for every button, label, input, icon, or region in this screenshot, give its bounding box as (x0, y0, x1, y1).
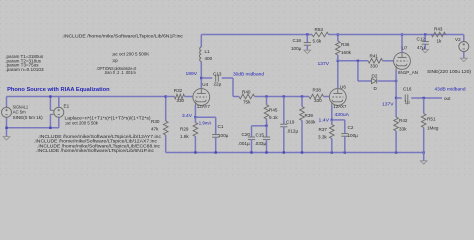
svg-text:C16: C16 (403, 87, 412, 92)
svg-text:R36: R36 (341, 42, 350, 47)
svg-text:C12: C12 (417, 36, 426, 41)
svg-text:100µ: 100µ (291, 46, 302, 51)
svg-text:D2: D2 (372, 74, 378, 79)
svg-text:R43: R43 (434, 27, 443, 32)
svg-text:R42: R42 (399, 118, 408, 123)
svg-text:.001µ: .001µ (238, 141, 250, 146)
svg-text:12AX7: 12AX7 (333, 104, 347, 109)
svg-text:E1: E1 (64, 104, 70, 109)
svg-text:R38: R38 (313, 88, 322, 93)
svg-text:1Meg: 1Meg (427, 126, 439, 131)
svg-text:47µ: 47µ (417, 45, 425, 50)
svg-text:R51: R51 (427, 117, 436, 122)
svg-text:R40: R40 (242, 90, 251, 95)
svg-text:;op: ;op (112, 58, 118, 63)
svg-text:100µ: 100µ (348, 133, 359, 138)
svg-text:.033µ: .033µ (255, 141, 267, 146)
svg-text:137V: 137V (318, 61, 330, 66)
svg-text:6N1P_AN: 6N1P_AN (398, 70, 418, 75)
svg-text:C1: C1 (218, 124, 224, 129)
svg-text:L1: L1 (205, 49, 211, 54)
svg-text:R53: R53 (315, 27, 324, 32)
svg-text:33k: 33k (399, 127, 407, 132)
svg-text:SINE(0 5m 1k): SINE(0 5m 1k) (13, 115, 43, 120)
svg-text:C18: C18 (293, 38, 302, 43)
svg-text:U7: U7 (402, 46, 408, 51)
svg-text:R32: R32 (174, 88, 183, 93)
svg-text:Laplace=n*(1+T1*s)*(1+T3*s)/(1: Laplace=n*(1+T1*s)*(1+T3*s)/(1+T2*s) (65, 115, 152, 120)
svg-text:30dB midband: 30dB midband (233, 72, 264, 77)
svg-text:9.1k: 9.1k (269, 115, 278, 120)
svg-text:330: 330 (370, 64, 378, 69)
svg-text:1k: 1k (437, 39, 443, 44)
svg-text:R37: R37 (319, 127, 328, 132)
svg-text:.INCLUDE /home/mike/Software/L: .INCLUDE /home/mike/Software/LTspice/Lib… (62, 34, 184, 39)
svg-text:43dB midband: 43dB midband (435, 86, 466, 91)
svg-text:out: out (444, 96, 451, 101)
svg-text:.INCLUDE /home/mike/Software/L: .INCLUDE /home/mike/Software/LTspice/Lib… (38, 134, 162, 139)
svg-text:Phono Source with RIAA Equaliz: Phono Source with RIAA Equalization (7, 87, 110, 93)
svg-text:R29: R29 (180, 127, 189, 132)
svg-text:137V: 137V (382, 101, 394, 106)
svg-text:100µ: 100µ (218, 133, 229, 138)
svg-text:C15: C15 (256, 133, 265, 138)
svg-text:.INCLUDE /home/mike/Software/L: .INCLUDE /home/mike/Software/LTspice/Lib… (36, 148, 155, 153)
svg-text:5.6k: 5.6k (313, 39, 322, 44)
svg-text:.INCLUDE /home/mike/Software/L: .INCLUDE /home/mike/Software/LTspice/Lib… (34, 139, 158, 144)
svg-text:C13: C13 (213, 71, 222, 76)
svg-text:;ac oct 200 5 500K: ;ac oct 200 5 500K (112, 52, 150, 57)
svg-text:R30: R30 (151, 119, 160, 124)
svg-text:R39: R39 (305, 113, 314, 118)
svg-text:12AY7: 12AY7 (197, 104, 211, 109)
svg-text:400: 400 (205, 56, 213, 61)
svg-text:1.8k: 1.8k (180, 134, 189, 139)
svg-text:V2: V2 (455, 37, 461, 42)
svg-text:AC 5m: AC 5m (13, 110, 26, 115)
svg-text:R45: R45 (269, 108, 278, 113)
svg-text:R41: R41 (370, 54, 379, 59)
svg-text:.param n=0.10103: .param n=0.10103 (5, 67, 44, 72)
svg-text:SIGNAL1: SIGNAL1 (13, 104, 29, 109)
svg-text:SINE(220 100u 120): SINE(220 100u 120) (427, 69, 472, 74)
svg-text:1.4V: 1.4V (319, 117, 331, 122)
svg-text:.tran 0 .2 .1 .001m: .tran 0 .2 .1 .001m (104, 70, 136, 75)
svg-text:330: 330 (176, 98, 184, 103)
svg-text:U6: U6 (340, 85, 346, 90)
svg-text:1.9mA: 1.9mA (199, 121, 212, 126)
svg-text:C19: C19 (286, 120, 295, 125)
svg-text:1µ: 1µ (405, 100, 411, 105)
svg-text:3.4V: 3.4V (182, 113, 193, 118)
svg-text:330: 330 (314, 98, 322, 103)
svg-text:22µ: 22µ (214, 81, 222, 86)
svg-text:160k: 160k (341, 50, 352, 55)
svg-text:430uA: 430uA (335, 112, 350, 117)
svg-text:C20: C20 (242, 132, 251, 137)
svg-text:C2: C2 (348, 125, 354, 130)
svg-text:360k: 360k (306, 120, 317, 125)
svg-text:3.3k: 3.3k (318, 135, 327, 140)
svg-text:;ac oct 200 5 50k: ;ac oct 200 5 50k (65, 121, 99, 126)
svg-text:U4: U4 (202, 82, 208, 87)
svg-text:.INCLUDE /home/mike/Software/L: .INCLUDE /home/mike/Software/LTspice/Lib… (37, 143, 161, 148)
svg-text:.012µ: .012µ (287, 129, 299, 134)
svg-text:47k: 47k (151, 127, 159, 132)
svg-text:75k: 75k (243, 100, 251, 105)
svg-text:199V: 199V (186, 71, 198, 76)
